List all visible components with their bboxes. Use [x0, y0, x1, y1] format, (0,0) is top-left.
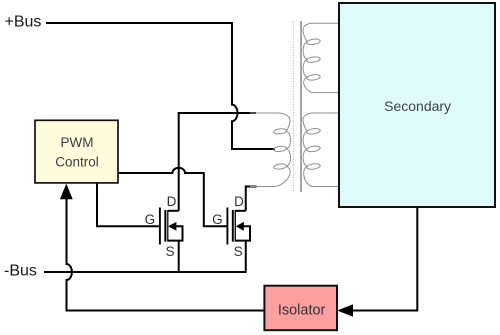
Q1 drain lead — [168, 210, 179, 212]
MOSFET Q1 — [145, 194, 183, 259]
wire Q1 source to -Bus rail — [178, 241, 180, 272]
svg-text:S: S — [234, 244, 243, 259]
Q2 drain lead — [235, 210, 245, 212]
Q2 source lead — [235, 226, 250, 240]
Isolator box — [264, 286, 337, 331]
svg-text:Secondary: Secondary — [384, 98, 451, 114]
wire secondary to isolator — [352, 207, 417, 311]
Q2 gate line — [226, 208, 228, 245]
transformer T1 primary winding — [250, 113, 291, 187]
Q1 gate line — [159, 208, 161, 245]
svg-text:D: D — [167, 194, 177, 209]
MOSFET Q2 — [212, 194, 250, 259]
transformer T1 secondary lower winding — [303, 113, 339, 187]
svg-text:PWM: PWM — [61, 135, 94, 150]
svg-text:-Bus: -Bus — [4, 263, 37, 280]
Secondary box — [339, 3, 495, 207]
wire +Bus horizontal — [46, 22, 232, 24]
wire +Bus vertical to primary center tap (hop over primary top wire) — [232, 22, 275, 149]
PWM Control box — [35, 120, 118, 183]
svg-text:G: G — [145, 212, 156, 227]
svg-text:Isolator: Isolator — [278, 303, 326, 319]
svg-text:S: S — [166, 244, 175, 259]
Q2 body arrow — [236, 222, 244, 231]
svg-text:+Bus: +Bus — [5, 14, 42, 31]
Q1 body arrow — [168, 222, 176, 231]
wire Q2 drain to primary bottom — [246, 187, 257, 211]
transformer T1 core — [292, 21, 294, 192]
svg-text:G: G — [212, 212, 223, 227]
svg-text:D: D — [234, 194, 244, 209]
arrowhead into isolator — [337, 304, 353, 316]
Q1 source lead — [168, 226, 183, 240]
wire PWM to Q2 gate (hop over Q1 drain wire) — [118, 168, 227, 226]
transformer T1 secondary upper winding — [303, 23, 339, 92]
Q2 channel bar — [232, 210, 236, 242]
wire Q1 drain to primary top — [179, 113, 256, 211]
wire isolator to PWM feedback (hop over -Bus rail) — [67, 199, 265, 311]
wire -Bus rail to Q2 source — [44, 241, 246, 272]
arrowhead into PWM control — [60, 184, 73, 200]
wire PWM to Q1 gate — [97, 182, 159, 226]
Q1 channel bar — [164, 210, 168, 242]
svg-text:Control: Control — [55, 154, 99, 169]
